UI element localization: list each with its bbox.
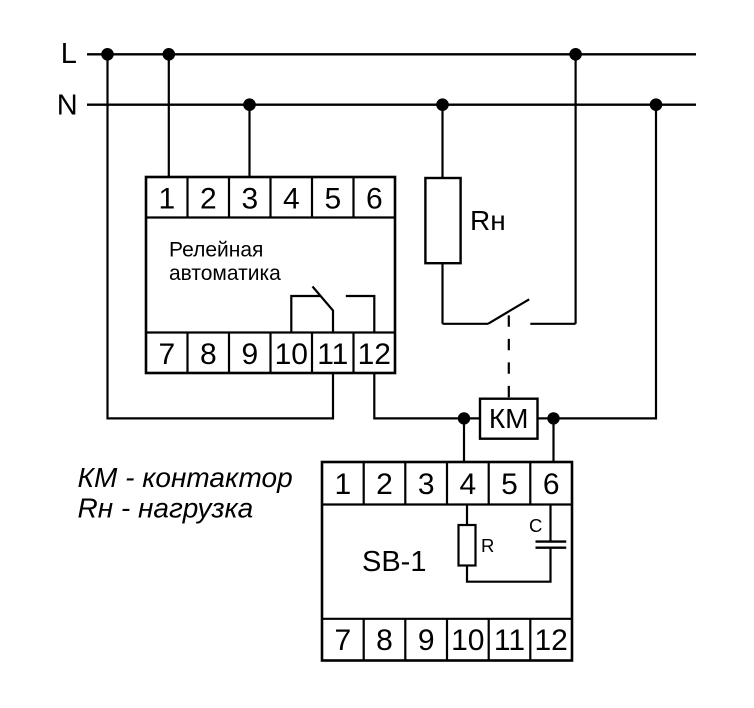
svg-text:2: 2 [200,183,217,216]
legend line 1: KM - contactor [78,462,293,493]
svg-text:4: 4 [459,468,476,501]
node N label [57,89,78,121]
svg-text:5: 5 [324,183,341,216]
svg-text:5: 5 [501,468,518,501]
svg-text:SB-1: SB-1 [362,546,426,578]
contactor coil KM label [489,403,529,434]
wire from resistor R to capacitor C bottom [467,548,551,582]
svg-text:8: 8 [200,338,217,371]
svg-text:2: 2 [376,468,393,501]
svg-text:6: 6 [543,468,560,501]
wire from L down-left to relay terminal 11 [108,54,334,418]
SB-1 top row cell dividers [364,462,531,505]
svg-text:C: C [529,515,542,536]
relay block label text [169,239,281,285]
relay block top terminal row divider [146,216,395,218]
wire from SB-1 terminal 6 to capacitor C top [549,505,551,542]
load resistor Rн [425,178,460,263]
svg-text:L: L [61,38,77,70]
svg-text:Rн: Rн [470,205,506,236]
svg-text:7: 7 [158,338,175,371]
svg-text:3: 3 [241,183,258,216]
svg-text:R: R [481,535,494,556]
svg-text:Релейная: Релейная [169,239,263,262]
wire from N to load Rн [441,105,443,179]
relay contact NC lead from terminal 10 [291,296,320,333]
dashed mechanical link from main contact to KM coil [508,315,510,398]
SB-1 terminal numbers 1-6 [334,468,559,501]
wire from N to relay terminal 3 [248,105,250,178]
block SB-1 outline [322,462,572,661]
svg-text:10: 10 [275,338,308,371]
wire from relay terminal 12 to contactor coil KM [374,373,480,418]
svg-text:Rн - нагрузка: Rн - нагрузка [78,493,254,524]
svg-text:N: N [57,89,78,121]
SB-1 bottom row cell dividers [364,619,531,661]
wire from L down to contactor main contact [574,54,576,324]
junction on N feeding relay terminal 3 [243,98,256,111]
svg-text:автоматика: автоматика [169,262,281,285]
wire from N down to contactor coil KM right side [538,105,657,419]
relay bottom row cell dividers [188,333,354,374]
junction right of KM coil [547,412,559,424]
svg-text:3: 3 [418,468,435,501]
SB-1 terminal numbers 7-12 [334,624,567,657]
node L label [61,38,77,70]
junction on L at left branch [101,48,114,61]
legend line 2: Rн - load [78,493,254,524]
contactor main contact right lead [530,323,575,325]
load resistor Rн label [470,205,506,236]
svg-text:4: 4 [283,183,300,216]
junction left of KM coil [458,412,470,424]
svg-text:11: 11 [317,338,348,371]
resistor R inside SB-1 [459,525,476,566]
svg-text:9: 9 [241,338,258,371]
wire N line [87,104,696,106]
capacitor C label [529,515,542,536]
relay top row cell dividers [188,177,354,218]
wire from L to relay terminal 1 [168,54,170,177]
relay terminal numbers 7-12 [158,338,391,371]
resistor R label [481,535,494,556]
SB-1 bottom terminal row divider [322,618,572,620]
svg-text:6: 6 [366,183,383,216]
svg-text:КМ - контактор: КМ - контактор [78,462,293,493]
svg-text:10: 10 [451,624,484,657]
svg-text:12: 12 [358,338,391,371]
wire from KM right junction down to SB-1 terminal 6 [552,418,554,462]
capacitor C plates [536,542,567,548]
relay terminal numbers 1-6 [158,183,382,216]
junction on L feeding contactor main contact [569,48,582,61]
contactor coil KM box [480,399,538,439]
relay automation block outline [146,177,395,373]
SB-1 top terminal row divider [322,503,572,505]
svg-text:9: 9 [418,624,435,657]
wire from SB-1 terminal 4 to resistor R [466,505,468,526]
wire L line [87,53,696,55]
junction on N feeding load Rн [436,98,449,111]
svg-text:1: 1 [334,468,351,501]
contactor main contact left lead [443,323,489,325]
junction on L feeding relay terminal 1 [163,48,176,61]
svg-text:7: 7 [334,624,351,657]
contactor main contact blade [488,299,529,324]
svg-text:12: 12 [535,624,568,657]
relay block bottom terminal row divider [146,331,395,333]
svg-text:КМ: КМ [489,403,529,434]
svg-text:1: 1 [158,183,175,216]
relay contact NO lead to terminal 12 [346,296,375,333]
svg-text:11: 11 [494,624,525,657]
junction on N feeding contactor coil [650,98,663,111]
wire from Rн down to contactor main contact [441,263,443,324]
svg-text:8: 8 [376,624,393,657]
SB-1 block label [362,546,426,578]
wire from KM left junction down to SB-1 terminal 4 [463,418,465,462]
relay contact blade from terminal 11 [313,287,334,333]
